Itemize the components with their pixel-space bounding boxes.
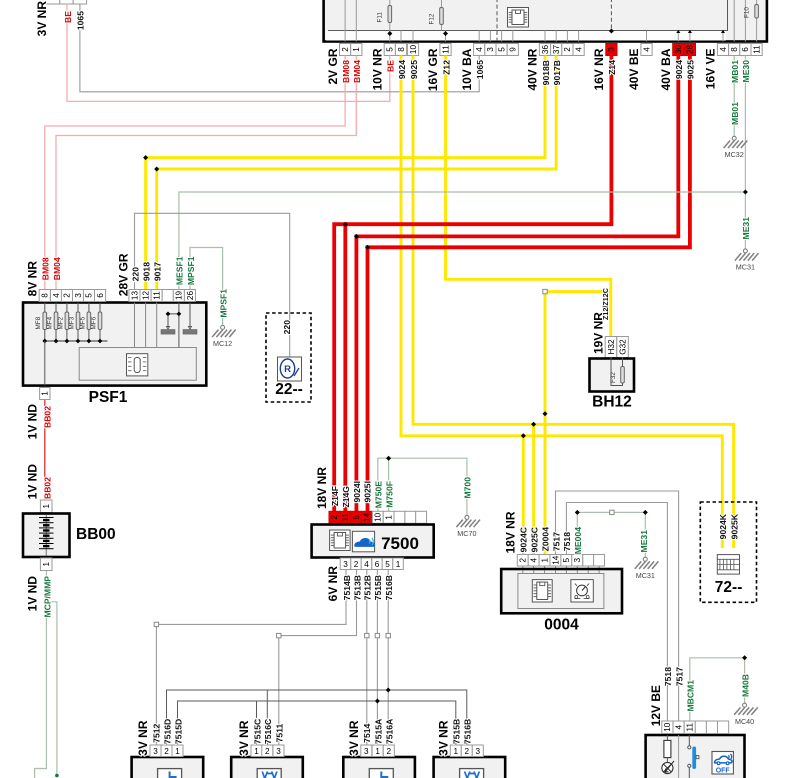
- 0004 pin 2: [517, 555, 528, 567]
- pin 4: [717, 44, 728, 56]
- svg-text:F10: F10: [744, 7, 751, 18]
- wire MCP/MMP green below BB00: [35, 571, 47, 778]
- svg-text:F11: F11: [377, 12, 384, 23]
- svg-text:3V NR: 3V NR: [347, 720, 361, 756]
- svg-text:1V ND: 1V ND: [26, 404, 40, 440]
- svg-text:MF5: MF5: [79, 316, 86, 329]
- pin 28: [684, 44, 695, 56]
- 12VBE pin blank: [695, 721, 706, 734]
- 7500 bottom pin 4: [361, 558, 372, 570]
- svg-text:28: 28: [686, 45, 695, 55]
- wire 7515B gray 7500 pin6 to relay3 pin1: [376, 570, 378, 746]
- svg-text:4: 4: [674, 724, 683, 729]
- wire stubs inside top box: [345, 0, 756, 42]
- svg-text:28V GR: 28V GR: [117, 253, 131, 296]
- PSF1 pin 8: [39, 290, 50, 302]
- svg-text:MC31: MC31: [736, 263, 755, 272]
- svg-text:9025: 9025: [686, 60, 696, 79]
- relay/motor unit 2: [231, 757, 303, 778]
- junction 7515 bus: [375, 699, 380, 704]
- svg-text:1: 1: [42, 503, 51, 508]
- svg-text:9017: 9017: [153, 262, 163, 281]
- PSF1 pin 4: [51, 290, 62, 302]
- svg-text:14: 14: [551, 555, 560, 565]
- svg-text:18V NR: 18V NR: [315, 467, 329, 509]
- pin 10: [407, 44, 418, 56]
- svg-text:3V NR: 3V NR: [35, 1, 49, 37]
- svg-text:MC12: MC12: [213, 339, 232, 348]
- svg-text:BH12: BH12: [592, 394, 632, 411]
- svg-text:MF8: MF8: [35, 316, 42, 329]
- svg-text:7517: 7517: [551, 532, 561, 551]
- svg-text:5: 5: [385, 560, 390, 569]
- svg-text:MPSF1: MPSF1: [218, 289, 228, 318]
- svg-text:14: 14: [363, 512, 372, 522]
- svg-text:40V NR: 40V NR: [526, 48, 540, 90]
- pin 5: [384, 44, 395, 56]
- wire MPSF1 green from PSF1 pin 26 to ground MC12: [190, 248, 223, 326]
- junction 9017B corner: [154, 167, 159, 172]
- unit 4 pin 2: [461, 745, 472, 757]
- unit 22 R symbol: [278, 357, 302, 381]
- ground MC70: [456, 515, 480, 538]
- svg-text:7516C: 7516C: [263, 719, 273, 744]
- relay/motor unit 4: [434, 757, 506, 778]
- svg-text:7515B: 7515B: [373, 575, 383, 600]
- svg-text:6: 6: [96, 293, 105, 298]
- wire 7517 gray 0004 pin14 to 12VBE pin 4: [556, 491, 679, 721]
- unit 4 pin 3: [472, 745, 483, 757]
- svg-text:3: 3: [364, 747, 369, 756]
- svg-text:9024: 9024: [397, 60, 407, 79]
- svg-text:4: 4: [530, 557, 539, 562]
- svg-text:9025I: 9025I: [363, 481, 373, 503]
- PSF1 pin 6: [95, 290, 106, 302]
- junction M750F: [386, 456, 391, 461]
- wire 7516B gray 7500 pin5 to relay3 pin2: [387, 570, 389, 746]
- connector square ME004: [610, 510, 614, 514]
- svg-text:8: 8: [397, 47, 406, 52]
- svg-text:7515D: 7515D: [173, 719, 183, 744]
- svg-text:16V VE: 16V VE: [704, 49, 718, 90]
- svg-text:MCP/MMP: MCP/MMP: [42, 576, 52, 618]
- svg-text:18V NR: 18V NR: [504, 511, 518, 553]
- junction 7516 bus: [386, 688, 391, 693]
- connector square 7514: [365, 633, 369, 637]
- svg-text:Z0004: Z0004: [540, 527, 550, 552]
- 7500 bottom pin 3: [340, 558, 351, 570]
- svg-text:4: 4: [574, 47, 583, 52]
- junction 9018B corner: [143, 155, 148, 160]
- svg-text:9024: 9024: [674, 60, 684, 79]
- svg-text:3: 3: [573, 557, 582, 562]
- wire 9025 yellow: pin 10 to unit 72 with branch: [413, 56, 734, 549]
- 12VBE pin 11: [684, 721, 695, 734]
- wire 7512B gray 7500 pin4 to relay3 (7514): [366, 570, 368, 746]
- svg-text:1V ND: 1V ND: [26, 464, 40, 500]
- svg-text:Z14F: Z14F: [330, 486, 340, 506]
- svg-text:220: 220: [282, 320, 292, 335]
- svg-text:7517: 7517: [674, 667, 684, 686]
- BB00 pin 1 top: [40, 500, 52, 513]
- svg-text:2: 2: [341, 47, 350, 52]
- svg-text:2: 2: [465, 747, 470, 756]
- fuse F12: [441, 0, 443, 8]
- pin 4: [474, 44, 485, 56]
- pin 5: [496, 44, 507, 56]
- PSF1 pin 5: [83, 290, 94, 302]
- unit 2 pin 2: [262, 745, 273, 757]
- wire BB02 red PSF1 pin1 to BB00: [44, 400, 46, 500]
- svg-text:40V BE: 40V BE: [627, 49, 641, 90]
- splice dot Z0004: [543, 411, 548, 416]
- svg-text:3: 3: [343, 560, 348, 569]
- 0004 pin 3: [572, 555, 583, 567]
- svg-text:11: 11: [153, 291, 162, 300]
- svg-text:BE: BE: [63, 11, 73, 23]
- PSF1 inner module box: [79, 348, 196, 381]
- svg-text:MF2: MF2: [57, 316, 64, 329]
- PSF1 internal ground bars: [167, 327, 170, 330]
- svg-text:M750F: M750F: [384, 481, 394, 508]
- svg-text:19: 19: [175, 291, 184, 301]
- svg-text:7516A: 7516A: [385, 719, 395, 744]
- wire 9025 red 40V BA to 7500 pin 14 (9025I): [368, 56, 690, 512]
- svg-text:12: 12: [141, 291, 150, 301]
- svg-text:7500: 7500: [381, 534, 419, 553]
- wire MBCM1/M40B green 12VBE pin11 to ground MC40: [690, 658, 745, 721]
- unit 4 pin 1: [450, 745, 461, 757]
- svg-text:9025K: 9025K: [729, 513, 739, 539]
- wire 9017B yellow: [157, 56, 557, 290]
- PSF1 pin blank: [162, 290, 173, 302]
- ground MC32: [724, 136, 748, 159]
- pin 4: [573, 44, 584, 56]
- svg-text:3: 3: [486, 47, 495, 52]
- svg-text:7515C: 7515C: [252, 719, 262, 744]
- svg-text:9024I: 9024I: [352, 481, 362, 503]
- svg-text:7518: 7518: [562, 532, 572, 551]
- junction 9025C branch: [531, 422, 536, 427]
- connector square 7511: [277, 633, 281, 637]
- connector square 7516: [386, 633, 390, 637]
- svg-text:22--: 22--: [275, 381, 303, 398]
- 12VBE pin blank: [706, 721, 717, 734]
- svg-text:9025C: 9025C: [530, 527, 540, 552]
- wire BE (pink) from 3V NR to pin 5: [67, 4, 390, 101]
- wire 7513B gray 7500 pin2 to relay2 (7511): [279, 570, 357, 746]
- svg-text:7511: 7511: [274, 723, 284, 742]
- svg-text:1: 1: [375, 747, 380, 756]
- ground MC31 second: [635, 557, 659, 580]
- svg-text:OFF: OFF: [716, 768, 731, 775]
- svg-text:40V BA: 40V BA: [659, 48, 673, 90]
- svg-text:10: 10: [374, 512, 383, 522]
- top-left connector 3V NR pins: [46, 0, 59, 4]
- svg-text:7514: 7514: [362, 723, 372, 742]
- svg-text:10: 10: [409, 45, 418, 55]
- svg-text:1: 1: [540, 557, 549, 562]
- PSF1 box: [23, 303, 206, 386]
- unit 72 dashed box (multifunction display): [700, 502, 756, 602]
- 7500 pin 5: [351, 511, 362, 523]
- junction 9025I corner: [365, 245, 370, 250]
- PSF1 pin 2: [61, 290, 72, 302]
- svg-text:5: 5: [386, 47, 395, 52]
- 12VBE pin 4: [673, 721, 684, 734]
- svg-text:37: 37: [552, 45, 561, 55]
- pin 8: [395, 44, 406, 56]
- svg-text:6: 6: [741, 47, 750, 52]
- IC symbol in top box: [508, 8, 529, 28]
- pin 4: [641, 44, 652, 56]
- svg-text:Z14: Z14: [607, 60, 617, 75]
- svg-text:7516B: 7516B: [384, 575, 394, 600]
- wire 1065 from 3V NR to pin 4: [80, 4, 479, 92]
- svg-text:7514B: 7514B: [342, 575, 352, 600]
- unit 22 dashed box (clock/display): [266, 313, 311, 402]
- svg-text:G32: G32: [618, 339, 627, 355]
- junction MBCM1/M40B: [742, 655, 747, 660]
- svg-text:BB02: BB02: [42, 406, 52, 428]
- 0004 gauge symbol: [571, 580, 593, 602]
- PSF1 pin 26: [184, 290, 195, 302]
- 7500 pin blank: [394, 511, 405, 523]
- svg-text:7512B: 7512B: [363, 575, 373, 600]
- svg-text:36: 36: [541, 45, 550, 55]
- svg-text:30: 30: [674, 45, 683, 55]
- svg-text:1: 1: [384, 515, 393, 520]
- svg-text:4: 4: [364, 560, 369, 569]
- svg-text:16V GR: 16V GR: [426, 48, 440, 91]
- svg-text:5: 5: [85, 293, 94, 298]
- svg-text:2: 2: [387, 747, 392, 756]
- pin 1: [351, 44, 362, 56]
- svg-text:220: 220: [130, 267, 140, 282]
- 7500 pin 2: [329, 511, 340, 523]
- unit 3 pin 1: [372, 745, 383, 757]
- bus 7515 dark: relay1 p1 - relay2 p1 - relay4 p1: [178, 701, 456, 746]
- wire MESF1 green from PSF1 pin 19 joining ME31: [179, 192, 746, 290]
- svg-text:1: 1: [396, 560, 401, 569]
- svg-text:7518: 7518: [663, 667, 673, 686]
- 7500 pin 14: [362, 511, 373, 523]
- 0004 pin 14: [550, 555, 561, 567]
- svg-text:9024K: 9024K: [718, 513, 728, 539]
- svg-text:2: 2: [265, 747, 270, 756]
- svg-text:1: 1: [42, 561, 51, 566]
- svg-text:6V NR: 6V NR: [326, 566, 340, 602]
- unit 1 icon: [158, 769, 182, 778]
- svg-text:F32: F32: [610, 372, 617, 383]
- 7500 bottom pin 5: [382, 558, 393, 570]
- PSF1 relay symbol: [127, 354, 148, 376]
- pin 3: [485, 44, 496, 56]
- relay/motor unit 3: [343, 757, 415, 778]
- svg-text:MF3: MF3: [68, 316, 75, 329]
- pin 8: [729, 44, 740, 56]
- svg-text:3: 3: [276, 747, 281, 756]
- pin 2: [562, 44, 573, 56]
- svg-text:7515A: 7515A: [373, 719, 383, 744]
- svg-text:2: 2: [63, 293, 72, 298]
- svg-text:9018B: 9018B: [541, 60, 551, 85]
- svg-text:1: 1: [352, 47, 361, 52]
- 7500 car icon: [352, 531, 374, 552]
- svg-text:9: 9: [509, 47, 518, 52]
- svg-text:MB01: MB01: [730, 102, 740, 125]
- svg-text:BB02: BB02: [42, 477, 52, 499]
- svg-text:7512: 7512: [151, 723, 161, 742]
- svg-text:MF6: MF6: [90, 316, 97, 329]
- PSF1 internal wires right side: [134, 303, 136, 348]
- svg-text:3: 3: [607, 47, 616, 52]
- 0004 IC symbol: [532, 580, 552, 602]
- svg-text:3: 3: [476, 747, 481, 756]
- svg-text:Z14G: Z14G: [341, 486, 351, 508]
- PSF1 pin 12: [140, 290, 151, 302]
- svg-text:2: 2: [563, 47, 572, 52]
- wire BM08 pink: [45, 56, 345, 290]
- svg-text:BB00: BB00: [76, 526, 116, 543]
- svg-text:4: 4: [52, 293, 61, 298]
- svg-text:4: 4: [642, 47, 651, 52]
- svg-text:ME31: ME31: [639, 530, 649, 553]
- svg-text:9025: 9025: [409, 60, 419, 79]
- svg-text:5: 5: [562, 557, 571, 562]
- unit 3 icon: [369, 769, 393, 778]
- 12VBE internal resistor and lamp: [666, 735, 668, 740]
- svg-text:PSF1: PSF1: [89, 389, 128, 406]
- 7500 IC symbol: [330, 530, 351, 551]
- PSF1 pin 13: [129, 290, 140, 302]
- connector square 7512: [154, 622, 158, 626]
- svg-text:8V NR: 8V NR: [26, 261, 40, 297]
- svg-text:BE: BE: [386, 60, 396, 72]
- relay/motor unit 1: [132, 757, 204, 778]
- junction 9024C branch: [521, 433, 526, 438]
- svg-text:2: 2: [519, 557, 528, 562]
- wire 9018B yellow: [146, 56, 545, 290]
- svg-text:10V BA: 10V BA: [460, 48, 474, 90]
- wire M750E/M750F green from 7500 to ground MC70: [378, 458, 467, 515]
- wire BM04 pink: [56, 56, 356, 290]
- svg-text:M750E: M750E: [374, 481, 384, 508]
- wire ME004 green 0004 pin3 to ground MC31: [577, 512, 645, 557]
- ground MC40: [734, 703, 758, 726]
- svg-text:1: 1: [175, 747, 180, 756]
- svg-text:4: 4: [475, 47, 484, 52]
- svg-text:MF4: MF4: [46, 316, 53, 329]
- 12VBE internal switch blue: [688, 735, 690, 746]
- svg-text:26: 26: [186, 291, 195, 301]
- PSF1 pin 1 bottom: [40, 388, 50, 400]
- PSF1 pin 19: [173, 290, 184, 302]
- 7500 bottom pin 1: [393, 558, 404, 570]
- 7500 pin 1: [383, 511, 394, 523]
- 7500 bottom pin 2: [351, 558, 362, 570]
- bus 7516 dark: relay1 p2 - relay2 p2 - relay4 p2: [167, 690, 467, 746]
- svg-text:1065: 1065: [76, 11, 86, 30]
- svg-text:9017B: 9017B: [552, 60, 562, 85]
- PSF1 internal fuses MF8 MF4 MF2 MF3 MF5 MF6: [44, 303, 46, 342]
- svg-text:5: 5: [352, 515, 361, 520]
- svg-text:3V NR: 3V NR: [237, 720, 251, 756]
- BB00 pin 1 bottom: [40, 558, 52, 571]
- unit 2 pin 3: [273, 745, 284, 757]
- PSF1 pin 3: [73, 290, 84, 302]
- unit 72 display symbol: [717, 555, 739, 575]
- svg-text:8: 8: [41, 293, 50, 298]
- BH12 fuse F32: [611, 358, 623, 386]
- 12VBE pin blank: [718, 721, 729, 734]
- 7500 pin blank: [416, 511, 427, 523]
- svg-text:13: 13: [130, 291, 139, 301]
- svg-text:1: 1: [41, 391, 50, 396]
- unit 4 icon: [460, 769, 484, 778]
- 7500 pin blank: [405, 511, 416, 523]
- svg-text:MB01: MB01: [730, 60, 740, 83]
- svg-text:2V GR: 2V GR: [326, 48, 340, 84]
- junction Z14F/Z14G split: [343, 222, 348, 227]
- junction MESF1/ME31: [743, 190, 748, 195]
- svg-text:2: 2: [164, 747, 169, 756]
- PSF1 pin 11: [151, 290, 162, 302]
- BB00 battery symbol: [45, 515, 47, 556]
- svg-text:11: 11: [752, 45, 761, 54]
- svg-text:4: 4: [719, 47, 728, 52]
- ground MC12: [212, 325, 236, 348]
- svg-text:MC32: MC32: [725, 150, 744, 159]
- fuse F11: [389, 0, 391, 6]
- svg-text:5: 5: [497, 47, 506, 52]
- svg-text:MC31: MC31: [636, 571, 655, 580]
- pin 3: [606, 44, 617, 56]
- svg-text:BM04: BM04: [352, 60, 362, 83]
- 0004 pin 5: [561, 555, 572, 567]
- svg-text:7516D: 7516D: [162, 719, 172, 744]
- svg-text:11: 11: [686, 723, 695, 732]
- wire 9024 red 40V BA to 7500 pin 5 (9024I): [356, 56, 678, 512]
- BH12 pin H32: [605, 337, 617, 358]
- 0004 pin 4: [528, 555, 539, 567]
- svg-text:3V NR: 3V NR: [136, 720, 150, 756]
- unit 3 pin 2: [383, 745, 394, 757]
- svg-text:1065: 1065: [475, 60, 485, 79]
- svg-text:1V ND: 1V ND: [26, 576, 40, 612]
- wire ME30/ME31 green to ground MC31: [744, 56, 746, 249]
- ground MC31: [735, 249, 759, 272]
- svg-text:3: 3: [74, 293, 83, 298]
- pin 30: [673, 44, 684, 56]
- 7500 bottom pin 6: [372, 558, 383, 570]
- fuse F10: [756, 0, 758, 5]
- wire 9024 yellow: pin 8 to unit 72 with branch to 0004: [401, 56, 722, 549]
- unit 1 pin 3: [150, 745, 161, 757]
- svg-text:MC40: MC40: [735, 717, 754, 726]
- unit 2 pin 1: [251, 745, 262, 757]
- svg-text:MPSF1: MPSF1: [186, 256, 196, 285]
- 0004 pin blank: [583, 555, 594, 567]
- PSF1 internal bus: [45, 340, 108, 342]
- svg-text:ME31: ME31: [741, 217, 751, 240]
- connector square 7515: [375, 633, 379, 637]
- svg-text:72--: 72--: [715, 579, 743, 596]
- svg-text:M700: M700: [463, 477, 473, 499]
- pin 9: [507, 44, 518, 56]
- wire Z14 red to 7500 (Z14F / Z14G): [334, 56, 611, 512]
- svg-text:MESF1: MESF1: [175, 256, 185, 285]
